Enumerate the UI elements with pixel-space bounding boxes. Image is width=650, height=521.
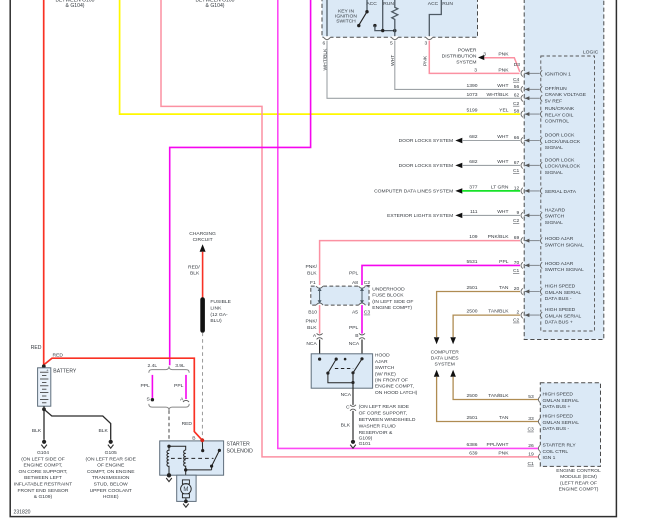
svg-text:56: 56 [514,84,520,90]
svg-text:SWITCH: SWITCH [545,214,565,220]
svg-text:NCA: NCA [306,341,317,347]
wire blade1 to common [328,373,353,383]
svg-text:CONTROL: CONTROL [545,119,569,125]
svg-text:ON HOOD LATCH): ON HOOD LATCH) [375,390,418,396]
svg-text:ACC: ACC [428,1,439,7]
svg-text:HOOD AJAR: HOOD AJAR [545,236,574,242]
svg-text:OFF/RUN: OFF/RUN [545,86,567,92]
svg-text:C2: C2 [513,218,520,224]
svg-text:(12 GA-: (12 GA- [210,312,228,318]
svg-text:PPL/WHT: PPL/WHT [487,442,509,448]
svg-text:& G109): & G109) [34,494,53,500]
svg-text:POWER: POWER [458,48,477,54]
svg-text:PNK: PNK [423,55,429,66]
ECM pin 33 row [467,414,580,433]
svg-text:C2: C2 [513,101,520,107]
svg-text:FRONT END SENSOR: FRONT END SENSOR [18,488,69,494]
svg-text:1073: 1073 [467,92,478,98]
door locks system reference 1 [399,138,463,144]
svg-text:WHT: WHT [497,83,508,89]
computer data lines system reference [374,188,462,194]
svg-text:SWITCH: SWITCH [375,365,395,371]
starter motor box [177,475,196,501]
node bus junction 1 [381,29,384,32]
wire PPL option 3.9L [185,375,187,399]
svg-text:STARTER: STARTER [227,442,251,448]
svg-text:CIRCUIT: CIRCUIT [193,237,213,243]
svg-text:BETWEEN WINDSHIELD: BETWEEN WINDSHIELD [359,417,416,423]
svg-text:3.9L: 3.9L [175,363,185,369]
svg-text:FUSIBLE: FUSIBLE [210,299,231,305]
svg-text:RUN/CRANK: RUN/CRANK [545,106,575,112]
svg-text:WASHER FLUID: WASHER FLUID [359,424,397,430]
ECM pin 67 row [469,157,581,176]
wire RED battery feed vertical [43,0,45,365]
svg-text:LOGIC: LOGIC [583,50,599,56]
node switch pivot [210,465,213,468]
svg-text:TAN/BLK: TAN/BLK [488,393,509,399]
switch blade 1 [328,359,336,373]
fuse block pin bump A5 [359,304,366,306]
svg-text:ENGINE COMPT,: ENGINE COMPT, [24,463,63,469]
svg-text:TAN: TAN [499,415,509,421]
ECM [374,0,604,493]
svg-text:33: 33 [528,416,534,422]
svg-text:SWITCH SIGNAL: SWITCH SIGNAL [545,267,584,273]
svg-text:LT GRN: LT GRN [491,185,509,191]
svg-text:DOOR LOCKS SYSTEM: DOOR LOCKS SYSTEM [399,138,454,144]
node coil1 ground [167,473,171,477]
svg-text:G105: G105 [105,450,117,456]
wire 6386 PPL/WHT starter relay coil control [278,0,539,448]
ground case motor [184,500,188,504]
wire 1390 WHT from pin5 to ECM pin56 [395,41,520,90]
ECM pin 66 row [469,133,581,152]
svg-text:DATA BUS +: DATA BUS + [543,404,571,410]
svg-text:(ON LEFT SIDE OF: (ON LEFT SIDE OF [21,456,65,462]
ECM pin 9 row [470,207,566,226]
battery [38,368,51,406]
wire deck2 run contact to pin3 [429,0,441,37]
wire common to box bottom [352,373,354,405]
wire RED/BLK to fusible link [202,252,204,298]
hood ajar switch box [311,354,372,388]
svg-text:NCA: NCA [349,341,360,347]
svg-text:RELAY COIL: RELAY COIL [545,112,574,118]
svg-text:C3: C3 [527,427,534,433]
svg-text:C: C [346,405,350,411]
svg-text:SWITCH SIGNAL: SWITCH SIGNAL [545,242,584,248]
svg-text:C1: C1 [527,461,534,467]
svg-text:TAN/BLK: TAN/BLK [488,309,509,315]
svg-text:G104: G104 [37,450,49,456]
svg-text:5V REF: 5V REF [545,98,562,104]
svg-text:COMPUTER DATA LINES SYSTEM: COMPUTER DATA LINES SYSTEM [374,189,453,195]
svg-text:SYSTEM: SYSTEM [456,60,476,66]
svg-text:FUSE BLOCK: FUSE BLOCK [372,293,404,299]
svg-text:5: 5 [390,41,393,47]
pin 5 bump [391,36,398,38]
svg-text:LOCK/UNLOCK: LOCK/UNLOCK [545,139,581,145]
IGNSW [322,0,520,98]
ignition switch box [322,0,478,37]
svg-text:DATA LINES: DATA LINES [431,355,460,361]
svg-text:111: 111 [470,209,478,215]
svg-text:PNK: PNK [498,67,509,73]
ground G104 [42,440,46,444]
svg-text:3: 3 [474,67,477,73]
wire 5531 PPL from fuse block to ECM pin70 [362,265,520,286]
svg-text:HIGH SPEED: HIGH SPEED [543,392,574,398]
svg-text:HIGH SPEED: HIGH SPEED [545,307,576,313]
svg-text:(W/ RKE): (W/ RKE) [375,371,396,377]
svg-text:A5: A5 [352,310,358,316]
coil hold-in winding [167,446,169,475]
svg-text:RED: RED [53,352,64,358]
svg-text:682: 682 [469,159,477,165]
svg-text:PNK/BLK: PNK/BLK [488,234,510,240]
svg-text:5199: 5199 [467,108,478,114]
MIDDLE [188,231,520,448]
node deck1 pivot [365,10,368,13]
switch blade deck1 [359,12,367,26]
solenoid switch blade [212,450,220,466]
svg-text:SIGNAL: SIGNAL [545,145,563,151]
svg-text:PPL: PPL [499,259,509,265]
svg-text:WHT: WHT [497,209,508,215]
ECM pin 62 row [467,92,543,107]
svg-text:HOSE): HOSE) [103,494,119,500]
svg-text:STARTER RLY: STARTER RLY [543,443,577,449]
svg-text:IGN 1: IGN 1 [543,455,556,461]
TOPLEFT [31,0,539,457]
node bus junction 2 [393,29,396,32]
svg-text:ON CORE SUPPORT,: ON CORE SUPPORT, [18,469,67,475]
svg-text:682: 682 [469,134,477,140]
node B terminal [200,438,204,442]
switch blade 2 [353,359,362,373]
svg-text:2500: 2500 [467,393,478,399]
wire 3 PNK from pin3 to ECM D3 [429,41,519,74]
svg-text:(LEFT REAR OF: (LEFT REAR OF [560,480,597,486]
svg-text:BATTERY: BATTERY [53,368,77,374]
svg-text:B10: B10 [308,310,317,316]
svg-text:SERIAL DATA: SERIAL DATA [545,189,577,195]
wire 2500 TAN/BLK to pin 53 [453,377,538,400]
svg-text:PNK: PNK [498,451,509,457]
fuse block pin bump A8 [359,285,366,287]
svg-text:YEL: YEL [499,108,509,114]
svg-text:SOLENOID: SOLENOID [227,449,254,455]
svg-text:DATA BUS -: DATA BUS - [545,296,572,302]
svg-text:231820: 231820 [14,510,31,516]
node B contact [201,449,204,452]
wire motor to ground [185,498,187,502]
svg-text:ENGINE COMPT): ENGINE COMPT) [559,487,599,493]
wire coil2 to switch pivot [186,469,212,471]
svg-text:& G104): & G104) [206,3,225,9]
svg-text:2.4L: 2.4L [147,363,157,369]
svg-text:BLK: BLK [190,271,200,277]
svg-text:D3: D3 [514,62,521,68]
wire BLK connector A to switch [319,340,321,360]
arrow to power distribution [478,55,484,60]
ECM pin 56 row [467,83,543,93]
svg-text:WHT: WHT [497,159,508,165]
svg-text:PPL: PPL [349,325,359,331]
svg-text:RED: RED [182,421,193,427]
engine control module outer box [524,0,604,340]
svg-text:A8: A8 [352,280,358,286]
svg-text:377: 377 [469,185,477,191]
svg-text:LOCK/UNLOCK: LOCK/UNLOCK [545,164,581,170]
svg-text:WHT/BLK: WHT/BLK [323,48,329,71]
BOTTOMLEFT [14,352,253,507]
svg-text:C4: C4 [513,77,520,83]
arrow up from computer data lines 1 [434,370,440,377]
svg-text:PNK/: PNK/ [305,319,317,325]
ground case left [166,478,172,482]
svg-text:HIGH SPEED: HIGH SPEED [545,284,576,290]
wire 682 WHT row67 [462,164,520,166]
coil pull-in winding [184,450,186,470]
exterior lights system reference [387,213,462,219]
ground G101 [351,440,355,444]
svg-text:TAN: TAN [499,285,509,291]
svg-text:COMPT, ON ENGINE: COMPT, ON ENGINE [87,469,135,475]
svg-text:G101: G101 [359,441,371,447]
svg-text:WHT: WHT [497,134,508,140]
node battery positive [42,364,46,368]
wire PPL to starter solenoid (from top) [170,0,311,365]
svg-text:RED/: RED/ [188,264,200,270]
node battery negative [42,407,46,411]
svg-text:IGNITION 1: IGNITION 1 [545,72,571,78]
ground G105 [109,440,113,444]
underhood fuse block box [311,286,369,305]
svg-text:PPL: PPL [349,271,359,277]
resistor key-in warning [392,0,398,37]
wire 111 WHT hazard [462,214,520,216]
svg-text:ENGINE CONTROL: ENGINE CONTROL [556,468,601,474]
svg-text:HIGH SPEED: HIGH SPEED [543,414,574,420]
svg-text:DISTRIBUTION: DISTRIBUTION [442,54,477,60]
wire 639 PNK ign 1 feed [161,0,538,457]
wire dashed fusible link to solenoid B [201,333,203,439]
svg-text:62: 62 [514,93,520,99]
wire dashed option common to solenoid S [168,410,170,445]
ECM pin 26 row [467,442,577,455]
svg-text:SIGNAL: SIGNAL [545,170,563,176]
separator line deck1 [382,0,384,31]
logic box [541,56,595,331]
svg-text:(ON LEFT REAR SIDE: (ON LEFT REAR SIDE [359,404,410,410]
node common junction [351,381,354,384]
fuse block internal path F1-B10 [319,289,321,303]
svg-text:UNDERHOOD: UNDERHOOD [372,286,405,292]
fusible link [200,300,205,331]
ECM pin 20 row [467,284,582,303]
svg-text:COMPUTER: COMPUTER [431,349,460,355]
svg-text:GMLAN SERIAL: GMLAN SERIAL [545,290,582,296]
svg-text:HOOD: HOOD [375,353,390,359]
wire 682 WHT row66 [462,140,520,142]
svg-text:2500: 2500 [467,309,478,315]
wire deck1 pivot feed [366,0,368,12]
svg-text:26: 26 [528,443,534,449]
pin 6 bump [324,36,331,38]
svg-text:MODULE (ECM): MODULE (ECM) [560,474,597,480]
wire deck1 contact to bus [375,26,395,31]
svg-text:C1: C1 [513,168,520,174]
svg-text:GMLAN SERIAL: GMLAN SERIAL [543,398,580,404]
wire BLK to ground G101 [352,411,354,440]
wire 2501 TAN data bus minus [437,292,520,338]
svg-text:3: 3 [424,41,427,47]
arrow down to computer data lines [434,337,440,344]
wire PPL fuse to connector B [361,305,363,334]
svg-text:DATA BUS +: DATA BUS + [545,320,573,326]
engine control module lower box [540,383,600,467]
svg-text:TRANSMISSION: TRANSMISSION [92,475,130,481]
wire RED battery to starter solenoid B [44,358,203,440]
svg-text:DOOR LOCK: DOOR LOCK [545,133,575,139]
svg-text:& G104): & G104) [66,3,85,9]
wire 2500 TAN/BLK data bus plus [453,315,520,337]
svg-text:WHT: WHT [390,55,396,66]
svg-text:CHARGING: CHARGING [189,231,216,237]
svg-text:RED: RED [31,345,42,351]
wire 109 PNK/BLK from fuse block to ECM pin69 [320,241,520,286]
wire 1073 WHT/BLK from pin6 to ECM pin62 [327,41,520,99]
svg-text:BLK: BLK [98,428,108,434]
svg-text:RESERVOIR &: RESERVOIR & [359,430,393,436]
svg-text:BETWEEN LEFT: BETWEEN LEFT [24,475,62,481]
svg-text:19: 19 [528,451,534,457]
arrow down to computer data lines 2 [450,337,456,344]
svg-text:F1: F1 [310,280,316,286]
svg-text:NCA: NCA [341,392,352,398]
pin 3 bump [426,36,433,38]
solenoid plunger link dashed [171,457,214,459]
svg-text:PNK/: PNK/ [305,264,317,270]
svg-text:AJAR: AJAR [375,359,388,365]
ECM pin 69 row [469,234,584,248]
wire BLK battery to G105 [44,409,111,439]
ECM pin 58 row [467,108,543,118]
svg-text:C2: C2 [513,318,520,324]
svg-text:1390: 1390 [467,83,478,89]
svg-text:SIGNAL: SIGNAL [545,220,563,226]
starter motor M [181,484,192,495]
ECM pin 2 row [467,307,582,326]
wire coil2 to motor [185,470,187,480]
svg-text:DOOR LOCK: DOOR LOCK [545,157,575,163]
engine option brace bottom [149,404,189,410]
node dash anchor [344,358,347,361]
svg-text:5531: 5531 [467,259,478,265]
svg-text:EXTERIOR LIGHTS SYSTEM: EXTERIOR LIGHTS SYSTEM [387,213,453,219]
ECM pin 70 row [467,259,584,274]
svg-text:BLK: BLK [307,325,317,331]
ECM pin D3 row [513,62,571,83]
wire S to coil2 [169,446,186,450]
svg-text:109: 109 [469,234,477,240]
svg-text:C3: C3 [364,310,371,316]
door locks system reference 2 [399,163,463,169]
svg-text:639: 639 [469,451,477,457]
svg-text:RUN: RUN [442,1,453,7]
wire 2501 TAN to pin 33 [437,377,539,422]
mechanical link dashed [335,368,353,370]
node B terminal inside switch [360,357,363,360]
svg-text:ENGINE COMPT): ENGINE COMPT) [372,305,412,311]
engine option brace top [149,366,189,372]
svg-text:INFLATABLE RESTRAINT: INFLATABLE RESTRAINT [14,482,72,488]
svg-text:G109): G109) [359,436,373,442]
node deck1 RUN contact [373,24,376,27]
svg-text:CRANK VOLTAGE: CRANK VOLTAGE [545,92,587,98]
motor brush bottom [182,494,189,498]
svg-text:BLK: BLK [341,423,351,429]
svg-text:ACC: ACC [366,1,377,7]
svg-text:(ON LEFT REAR SIDE: (ON LEFT REAR SIDE [86,456,137,462]
ECM pin 19 row [469,451,555,467]
svg-text:COIL CTRL: COIL CTRL [543,449,569,455]
svg-text:2501: 2501 [467,285,478,291]
svg-text:SYSTEM: SYSTEM [435,361,455,367]
svg-text:BLU): BLU) [210,318,222,324]
svg-text:58: 58 [514,109,520,115]
svg-text:LINK: LINK [210,306,222,312]
svg-text:ENGINE COMPT,: ENGINE COMPT, [375,384,414,390]
wire BLK battery to G104 [43,406,45,440]
svg-text:PNK: PNK [498,51,509,57]
arrow up to charging circuit [200,244,206,251]
svg-text:UPPER COOLANT: UPPER COOLANT [90,488,132,494]
svg-text:PPL: PPL [140,383,150,389]
ECM pin 12 row [469,185,576,196]
svg-text:(IN FRONT OF: (IN FRONT OF [375,378,408,384]
svg-text:3: 3 [483,51,486,57]
svg-text:DOOR LOCKS SYSTEM: DOOR LOCKS SYSTEM [399,163,454,169]
svg-text:(IN LEFT SIDE OF: (IN LEFT SIDE OF [372,299,413,305]
svg-text:STUD, BELOW: STUD, BELOW [94,482,128,488]
starter solenoid box [160,441,224,475]
svg-text:OF ENGINE: OF ENGINE [97,463,125,469]
svg-text:GMLAN SERIAL: GMLAN SERIAL [545,313,582,319]
wire 377 LT GRN serial data [462,190,520,192]
svg-text:BLK: BLK [307,271,317,277]
svg-text:GMLAN SERIAL: GMLAN SERIAL [543,420,580,426]
node contact 1 [335,358,338,361]
wire 3 PNK power distribution branch [484,58,520,72]
svg-text:HOOD AJAR: HOOD AJAR [545,261,574,267]
fuse block pin bump F1 [316,285,323,287]
svg-text:53: 53 [528,394,534,400]
wire PNK/BLK fuse to connector A [319,305,321,334]
wire pin6 lead inside box [326,0,328,37]
svg-text:C1: C1 [513,268,520,274]
svg-text:SWITCH: SWITCH [336,19,356,25]
motor brush top [182,480,189,484]
svg-text:WHT/BLK: WHT/BLK [487,92,510,98]
node A terminal inside switch [318,358,321,361]
ECM pin 53 row [467,392,580,411]
wire BLK connector B to switch [361,340,363,359]
wire B terminal to contact [201,440,203,450]
fuse block pin bump B10 [316,304,323,306]
